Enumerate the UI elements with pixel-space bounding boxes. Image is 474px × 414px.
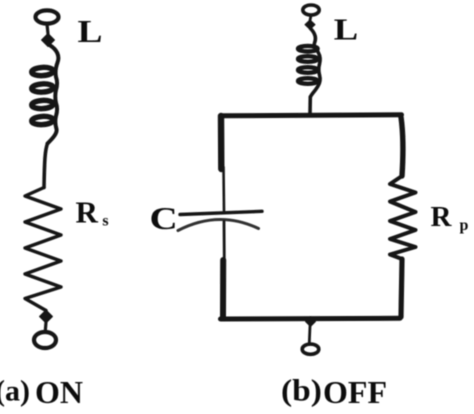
inductor L (a)	[32, 45, 59, 144]
wire right branch lower (b)	[401, 259, 402, 317]
wire	[47, 24, 48, 34]
wire top rail (b)	[221, 115, 402, 116]
wire left branch upper thin (b)	[222, 167, 225, 211]
wire	[308, 326, 312, 343]
node dot bottom (a)	[40, 310, 53, 323]
svg-text:ON: ON	[35, 374, 83, 409]
svg-text:OFF: OFF	[323, 374, 387, 409]
svg-text:(b): (b)	[281, 373, 322, 408]
terminal bottom (b)	[302, 344, 319, 354]
svg-text:(a): (a)	[0, 375, 30, 408]
svg-text:L: L	[334, 13, 358, 47]
wire	[310, 15, 311, 20]
terminal bottom (a)	[34, 332, 56, 348]
svg-text:Rp: Rp	[431, 201, 469, 234]
svg-text:L: L	[78, 14, 103, 50]
svg-text:Rs: Rs	[76, 195, 109, 230]
capacitor C curved plate	[178, 219, 259, 230]
resistor Rs (a)	[25, 188, 61, 311]
wire left branch lower thick (b)	[220, 260, 226, 318]
wire left branch lower thin (b)	[223, 222, 226, 263]
wire bottom rail (b)	[221, 316, 401, 322]
resistor Rp (b)	[390, 176, 416, 259]
inductor L (b)	[298, 29, 320, 98]
node dot top (b)	[305, 20, 315, 30]
terminal top (b)	[303, 5, 319, 15]
wire	[308, 97, 312, 114]
wire left branch upper thick (b)	[218, 116, 225, 169]
capacitor C top plate	[180, 211, 262, 214]
terminal top (a)	[36, 10, 59, 23]
wire	[44, 144, 48, 188]
node dot top (a)	[42, 34, 55, 47]
svg-text:C: C	[150, 200, 178, 236]
wire right branch upper (b)	[401, 117, 403, 176]
node dot bottom rail (b)	[306, 317, 316, 327]
wire	[44, 322, 48, 332]
